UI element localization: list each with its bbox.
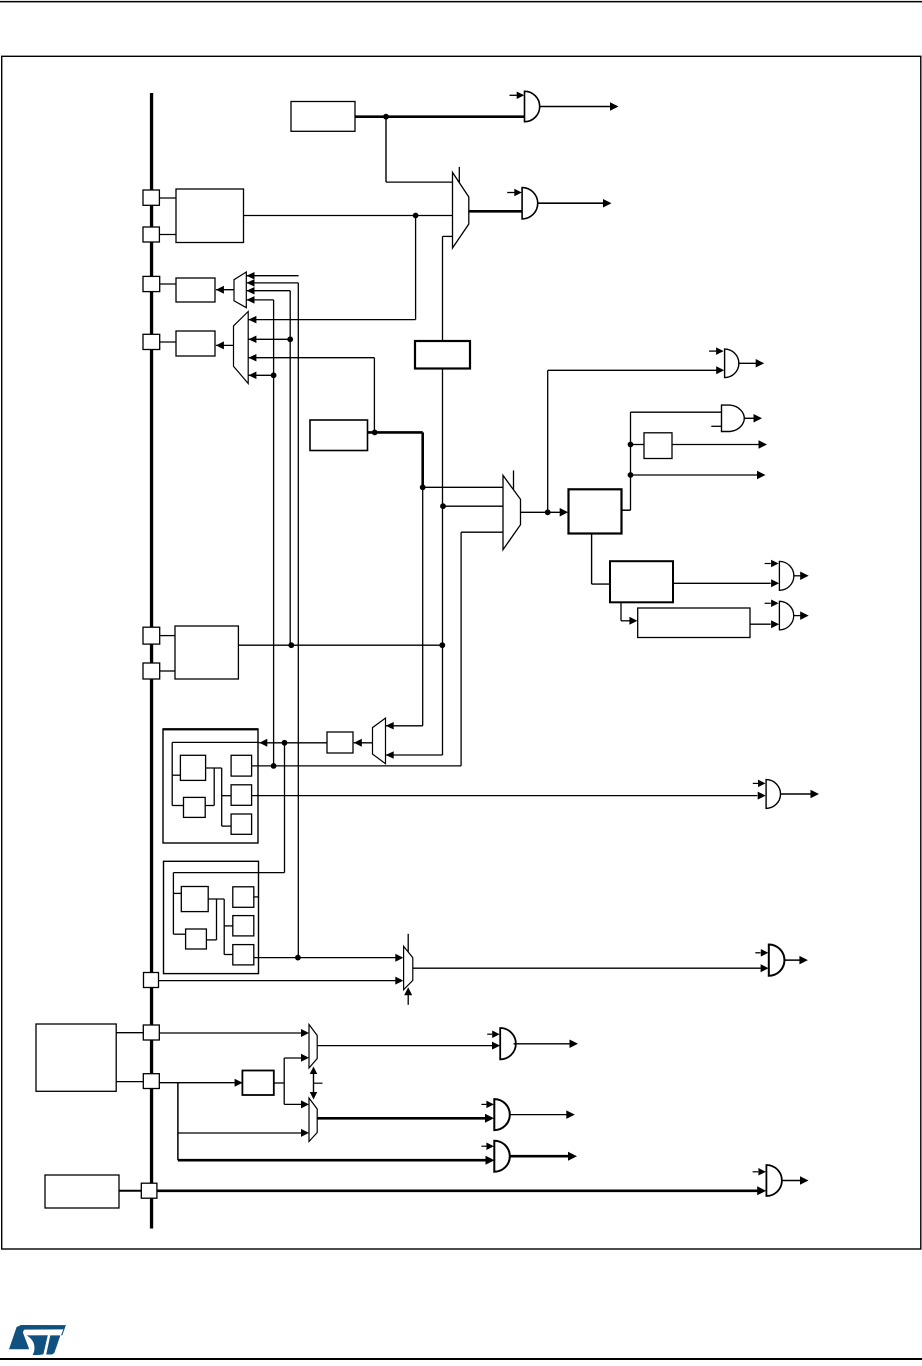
wire sq7 net to mux W input2 bbox=[178, 1132, 301, 1134]
AND gate G12 bbox=[494, 1141, 509, 1172]
AND gate G3 (SYSCLK) bbox=[725, 349, 739, 378]
junction boxH net / mux3 in1 bbox=[420, 484, 426, 490]
wire to mux V input2 bbox=[284, 1057, 301, 1059]
wire sq7 net to gate G12 (thick) bbox=[178, 1159, 487, 1162]
box K inner stub to K1 bbox=[172, 774, 180, 776]
gate G6 output arrow bbox=[800, 572, 809, 581]
gate G3 output wire bbox=[738, 362, 756, 364]
mux J (left-facing) bbox=[373, 718, 386, 764]
mux M2 bbox=[453, 172, 469, 248]
box Q (CSS) bbox=[415, 341, 470, 369]
tap to box G bbox=[160, 670, 175, 672]
gate G4 lower stub (dash) bbox=[711, 425, 721, 427]
junction boxG wire / vertical x=290 bbox=[288, 642, 294, 648]
bus tap sq5 bbox=[144, 973, 159, 988]
bus tap sq6 bbox=[143, 1025, 159, 1040]
mux D (left-facing) bbox=[234, 272, 246, 308]
gate G8 output arrow bbox=[811, 790, 820, 799]
AND gate G1 (top) bbox=[525, 91, 540, 121]
box K inner stub to K2 bbox=[172, 805, 183, 807]
tap sq8 wire to gate G13 (thick) bbox=[157, 1190, 759, 1193]
gate G6 enable stub bbox=[765, 563, 771, 565]
junction boxM net / arrow line bbox=[628, 472, 634, 478]
mux M3 bbox=[503, 475, 521, 549]
box C (RTC) bbox=[176, 278, 215, 302]
junction boxI wire bbox=[282, 740, 288, 746]
tap sq6 wire to mux V input1 bbox=[159, 1032, 301, 1034]
box L inner vertical 1 bbox=[172, 873, 174, 935]
mux M3 output wire bbox=[521, 511, 562, 513]
gate G13 output arrow bbox=[800, 1176, 809, 1185]
page footer rule bbox=[0, 1358, 922, 1360]
inner box L1 bbox=[181, 887, 208, 912]
box H (HSI RC) bbox=[310, 420, 368, 451]
box L inner vertical 2 bbox=[216, 899, 218, 940]
gate G1 enable stub bbox=[510, 94, 518, 96]
AND gate G13 bbox=[766, 1165, 781, 1196]
box K inner stub K2 right bbox=[205, 805, 214, 807]
gate G8 output wire bbox=[781, 793, 811, 795]
box P output wire bbox=[672, 444, 759, 446]
boxO output wire to gate G7 bbox=[750, 623, 771, 625]
wire into box O bbox=[621, 620, 630, 622]
tap sq5 wire to mux R input2 bbox=[159, 980, 396, 982]
box P output arrow bbox=[759, 440, 768, 449]
box L (container 2) bbox=[164, 861, 259, 973]
junction mux F input2 bbox=[287, 336, 293, 342]
gate G3 enable stub bbox=[709, 350, 716, 352]
box L inner stub to L2 bbox=[173, 933, 185, 935]
inner box K4 bbox=[231, 785, 252, 806]
inner box K2 bbox=[184, 797, 206, 817]
gate G6 output wire bbox=[793, 575, 800, 577]
mux M3 select pin bbox=[513, 470, 515, 489]
junction boxM net / boxP bbox=[628, 442, 634, 448]
box K inner vertical 1 bbox=[171, 742, 173, 805]
gate G7 output arrow bbox=[800, 611, 809, 620]
AND gate G4 bbox=[722, 405, 745, 431]
vertical K3 net up to mux M3 bbox=[460, 532, 462, 766]
AND gate G7 bbox=[779, 601, 793, 630]
tap to box G bbox=[160, 635, 175, 637]
mux D input line 3 bbox=[246, 290, 290, 292]
wire boxQ top to mux M2 input3 bbox=[442, 236, 444, 341]
vertical boxI net down to box L bbox=[284, 743, 286, 873]
mux F input1 wire from boxB net bbox=[248, 319, 415, 321]
mux V/W select line bbox=[313, 1070, 315, 1097]
box L inner stub to L1 bbox=[173, 892, 181, 894]
gate G11 output wire bbox=[510, 1114, 567, 1116]
mux R output wire to gate G9 bbox=[413, 967, 761, 969]
mux D input line 2 bbox=[246, 282, 298, 284]
gate G3 output arrow bbox=[756, 359, 765, 368]
boxN bottom connector bbox=[620, 602, 622, 621]
gate G10 output arrow bbox=[570, 1040, 579, 1049]
tap sq2 to box B bbox=[159, 234, 176, 236]
box K inner vertical 3 bbox=[221, 768, 223, 826]
arrow into box M bbox=[560, 508, 569, 517]
ST logo bbox=[9, 1325, 66, 1355]
bus tap sq1 bbox=[143, 190, 159, 205]
mux F input2 wire bbox=[248, 338, 290, 340]
wire into box N bbox=[592, 583, 610, 585]
gate G12 output arrow bbox=[568, 1152, 577, 1161]
gate G9 output wire bbox=[784, 959, 801, 961]
vertical net x=273.6 bbox=[273, 300, 275, 766]
boxM bottom connector bbox=[591, 534, 593, 585]
mux V output wire to gate G10 bbox=[317, 1045, 492, 1047]
vertical boxM net up bbox=[630, 412, 632, 510]
bus tap sq2 bbox=[143, 227, 159, 242]
gate G2 enable stub bbox=[507, 192, 515, 194]
gate G9 enable stub bbox=[755, 952, 760, 954]
boxH output wire (thick) bbox=[368, 431, 423, 434]
mux R select pin bottom bbox=[407, 990, 409, 1005]
gate G4 output arrow bbox=[754, 414, 763, 423]
gate G12 output wire (thick) bbox=[510, 1155, 568, 1158]
box K inner stub to K5 bbox=[222, 825, 231, 827]
wire boxQ bottom vertical net bbox=[442, 369, 444, 756]
box L inner stub to L4 bbox=[224, 925, 233, 927]
junction boxA wire bbox=[383, 114, 389, 120]
mux D output wire to box C bbox=[216, 289, 234, 291]
box K inner vertical 2 bbox=[213, 768, 215, 806]
mux F output wire to box E bbox=[216, 344, 234, 346]
box K (container 1) bbox=[163, 729, 258, 843]
junction boxQ net / boxG wire bbox=[439, 642, 445, 648]
AND gate G6 bbox=[779, 561, 793, 590]
inner box L4 bbox=[233, 916, 254, 936]
box N (APB prescaler) bbox=[610, 561, 673, 602]
boxM right edge wire bbox=[622, 509, 631, 511]
mux W bbox=[309, 1098, 317, 1142]
junction L5 wire / vertical x=298.3 bbox=[295, 955, 301, 961]
mux M2 select pin bbox=[458, 167, 460, 183]
gate G11 output arrow bbox=[566, 1110, 575, 1119]
gate G13 output wire bbox=[782, 1180, 800, 1182]
tap sq4 to box E bbox=[160, 341, 176, 343]
mux V bbox=[309, 1025, 317, 1069]
junction mux M3 output bbox=[545, 509, 551, 515]
bus tap sq8 bbox=[141, 1183, 157, 1198]
box L5 output wire to mux R bbox=[254, 957, 396, 959]
boxH net vertical continues bbox=[422, 487, 424, 726]
vertical mux3 output up to gate G3 bbox=[547, 370, 549, 512]
box U output fan vertical bbox=[283, 1058, 285, 1104]
vertical net x=298.3 bbox=[297, 283, 299, 958]
box L inner entry wire bbox=[173, 872, 284, 874]
mux D input line 4 bbox=[246, 299, 273, 301]
mux R bbox=[404, 946, 413, 989]
mux J output wire to box I bbox=[354, 742, 373, 744]
box L inner vertical 3 bbox=[223, 899, 225, 955]
mux R select pin top bbox=[407, 934, 409, 952]
gate G2 output wire bbox=[537, 202, 603, 204]
inner box K3 bbox=[231, 755, 252, 776]
mux M2 output wire (thick) bbox=[469, 210, 522, 213]
wire boxA to gate1 (thick) bbox=[355, 115, 525, 118]
box P (prescaler) bbox=[644, 433, 672, 459]
box BB (backup domain) bbox=[45, 1175, 119, 1208]
wire from boxM net to arrow bbox=[631, 474, 758, 476]
box T (ethernet PHY) bbox=[36, 1024, 116, 1091]
vertical net x=290.2 bbox=[289, 291, 291, 646]
inner box K5 bbox=[231, 814, 252, 834]
wire to gate G3 main input bbox=[548, 369, 717, 371]
junction boxH wire / muxF in3 bbox=[372, 430, 378, 436]
inner box L3 bbox=[233, 887, 254, 908]
AND gate G10 bbox=[500, 1028, 516, 1059]
gate G7 enable stub bbox=[765, 602, 771, 604]
vertical bus bbox=[150, 93, 153, 1229]
junction mux F input4 bbox=[271, 372, 277, 378]
box U (prescaler /2) bbox=[242, 1071, 273, 1096]
AND gate G9 (MCO) bbox=[769, 945, 785, 976]
gate G10 enable stub bbox=[487, 1033, 492, 1035]
mux F input4 wire bbox=[248, 374, 273, 376]
gate G8 enable stub bbox=[753, 782, 759, 784]
vertical boxB net down bbox=[415, 216, 417, 320]
box K inner entry wire bbox=[172, 741, 259, 743]
box B (HSE OSC) bbox=[176, 189, 244, 243]
box I (PLLMUL) bbox=[327, 732, 353, 753]
box K inner stub to K4 bbox=[222, 795, 231, 797]
wire down from junction to mux2 in1 bbox=[385, 117, 387, 182]
vertical mux F input3 to boxH net bbox=[373, 358, 375, 433]
wire to mux M3 input1 bbox=[423, 486, 503, 488]
box A (top oscillator box) bbox=[291, 102, 355, 132]
box K3 output wire (long) bbox=[252, 765, 462, 767]
box T to tap sq7 bbox=[116, 1081, 143, 1083]
boxN output wire to gate G6 bbox=[673, 582, 771, 584]
boxH net vertical (thick) bbox=[421, 432, 424, 487]
wire into box P bbox=[631, 444, 645, 446]
box L inner wire L1 right bbox=[208, 898, 224, 900]
bus tap sq-G1 bbox=[143, 627, 160, 644]
mux J input2 wire bbox=[386, 754, 443, 756]
box M (AHB prescaler) bbox=[569, 489, 622, 533]
vertical sq7 net down bbox=[177, 1083, 179, 1161]
inner box L2 bbox=[186, 929, 207, 949]
mux J input1 wire bbox=[386, 725, 423, 727]
junction boxB wire bbox=[413, 213, 419, 219]
gate G1 output wire bbox=[540, 106, 611, 108]
box K inner wire K1 right bbox=[206, 767, 222, 769]
bus tap sq-G2 bbox=[143, 663, 160, 679]
gate G9 output arrow bbox=[799, 956, 808, 965]
mux F (left-facing) bbox=[234, 312, 249, 384]
bus tap sq3 bbox=[143, 276, 160, 291]
box L inner stub to L5 bbox=[224, 954, 233, 956]
mux F input3 wire bbox=[248, 357, 374, 359]
junction boxQ net / mux3 in2 bbox=[440, 503, 446, 509]
box L inner stub L2 right bbox=[206, 939, 216, 941]
gate G4 output wire bbox=[744, 417, 753, 419]
box G (PLL) bbox=[175, 626, 238, 679]
gate G10 output wire bbox=[514, 1043, 570, 1045]
box L3 stub to border bbox=[254, 896, 259, 898]
bus tap sq4 bbox=[143, 334, 160, 349]
box K4 output wire to gate G8 bbox=[252, 795, 758, 797]
box G output wire bbox=[238, 644, 442, 646]
bus tap sq7 bbox=[143, 1074, 159, 1089]
box T to tap sq6 bbox=[116, 1032, 143, 1034]
page top rule bbox=[0, 1, 922, 3]
wire to mux M3 input2 bbox=[443, 505, 503, 507]
wire to gate G4 main input bbox=[631, 411, 722, 413]
box E (IWDG) bbox=[176, 331, 215, 356]
gate G1 output arrow bbox=[610, 102, 619, 111]
box BB to tap sq8 bbox=[119, 1190, 141, 1192]
output arrow bbox=[757, 471, 766, 480]
gate G13 enable stub bbox=[753, 1171, 759, 1173]
AND gate G2 bbox=[522, 188, 538, 219]
gate G11 enable stub bbox=[481, 1103, 486, 1105]
wire boxB to mux M2 input2 bbox=[244, 215, 453, 217]
gate G2 output arrow bbox=[603, 199, 612, 208]
gate G7 output wire bbox=[793, 615, 800, 617]
gate G12 enable stub bbox=[481, 1145, 486, 1147]
tap sq3 to box C bbox=[160, 283, 176, 285]
select stub dash bbox=[314, 1082, 323, 1084]
AND gate G11 bbox=[494, 1099, 509, 1130]
inner box L5 bbox=[233, 945, 254, 965]
box I output wire to box K bbox=[259, 742, 327, 744]
wire to mux M3 input3 bbox=[461, 531, 503, 533]
tap sq1 to box B bbox=[159, 197, 176, 199]
wire to mux2 input1 bbox=[386, 181, 453, 183]
junction K3 wire / vertical x=273.6 bbox=[271, 763, 277, 769]
box O (timer multiplier) bbox=[638, 608, 750, 638]
mux W output wire to gate G11 (thick) bbox=[317, 1117, 486, 1120]
mux D input line 1 (dangling) bbox=[246, 275, 298, 277]
tap sq7 wire to box U bbox=[159, 1082, 235, 1084]
AND gate G8 (K4 output) bbox=[766, 780, 780, 809]
box U output wire bbox=[274, 1082, 284, 1084]
wire mux M2 input3 bbox=[443, 235, 453, 237]
wire to mux W input1 bbox=[284, 1103, 301, 1105]
inner box K1 bbox=[180, 755, 205, 780]
